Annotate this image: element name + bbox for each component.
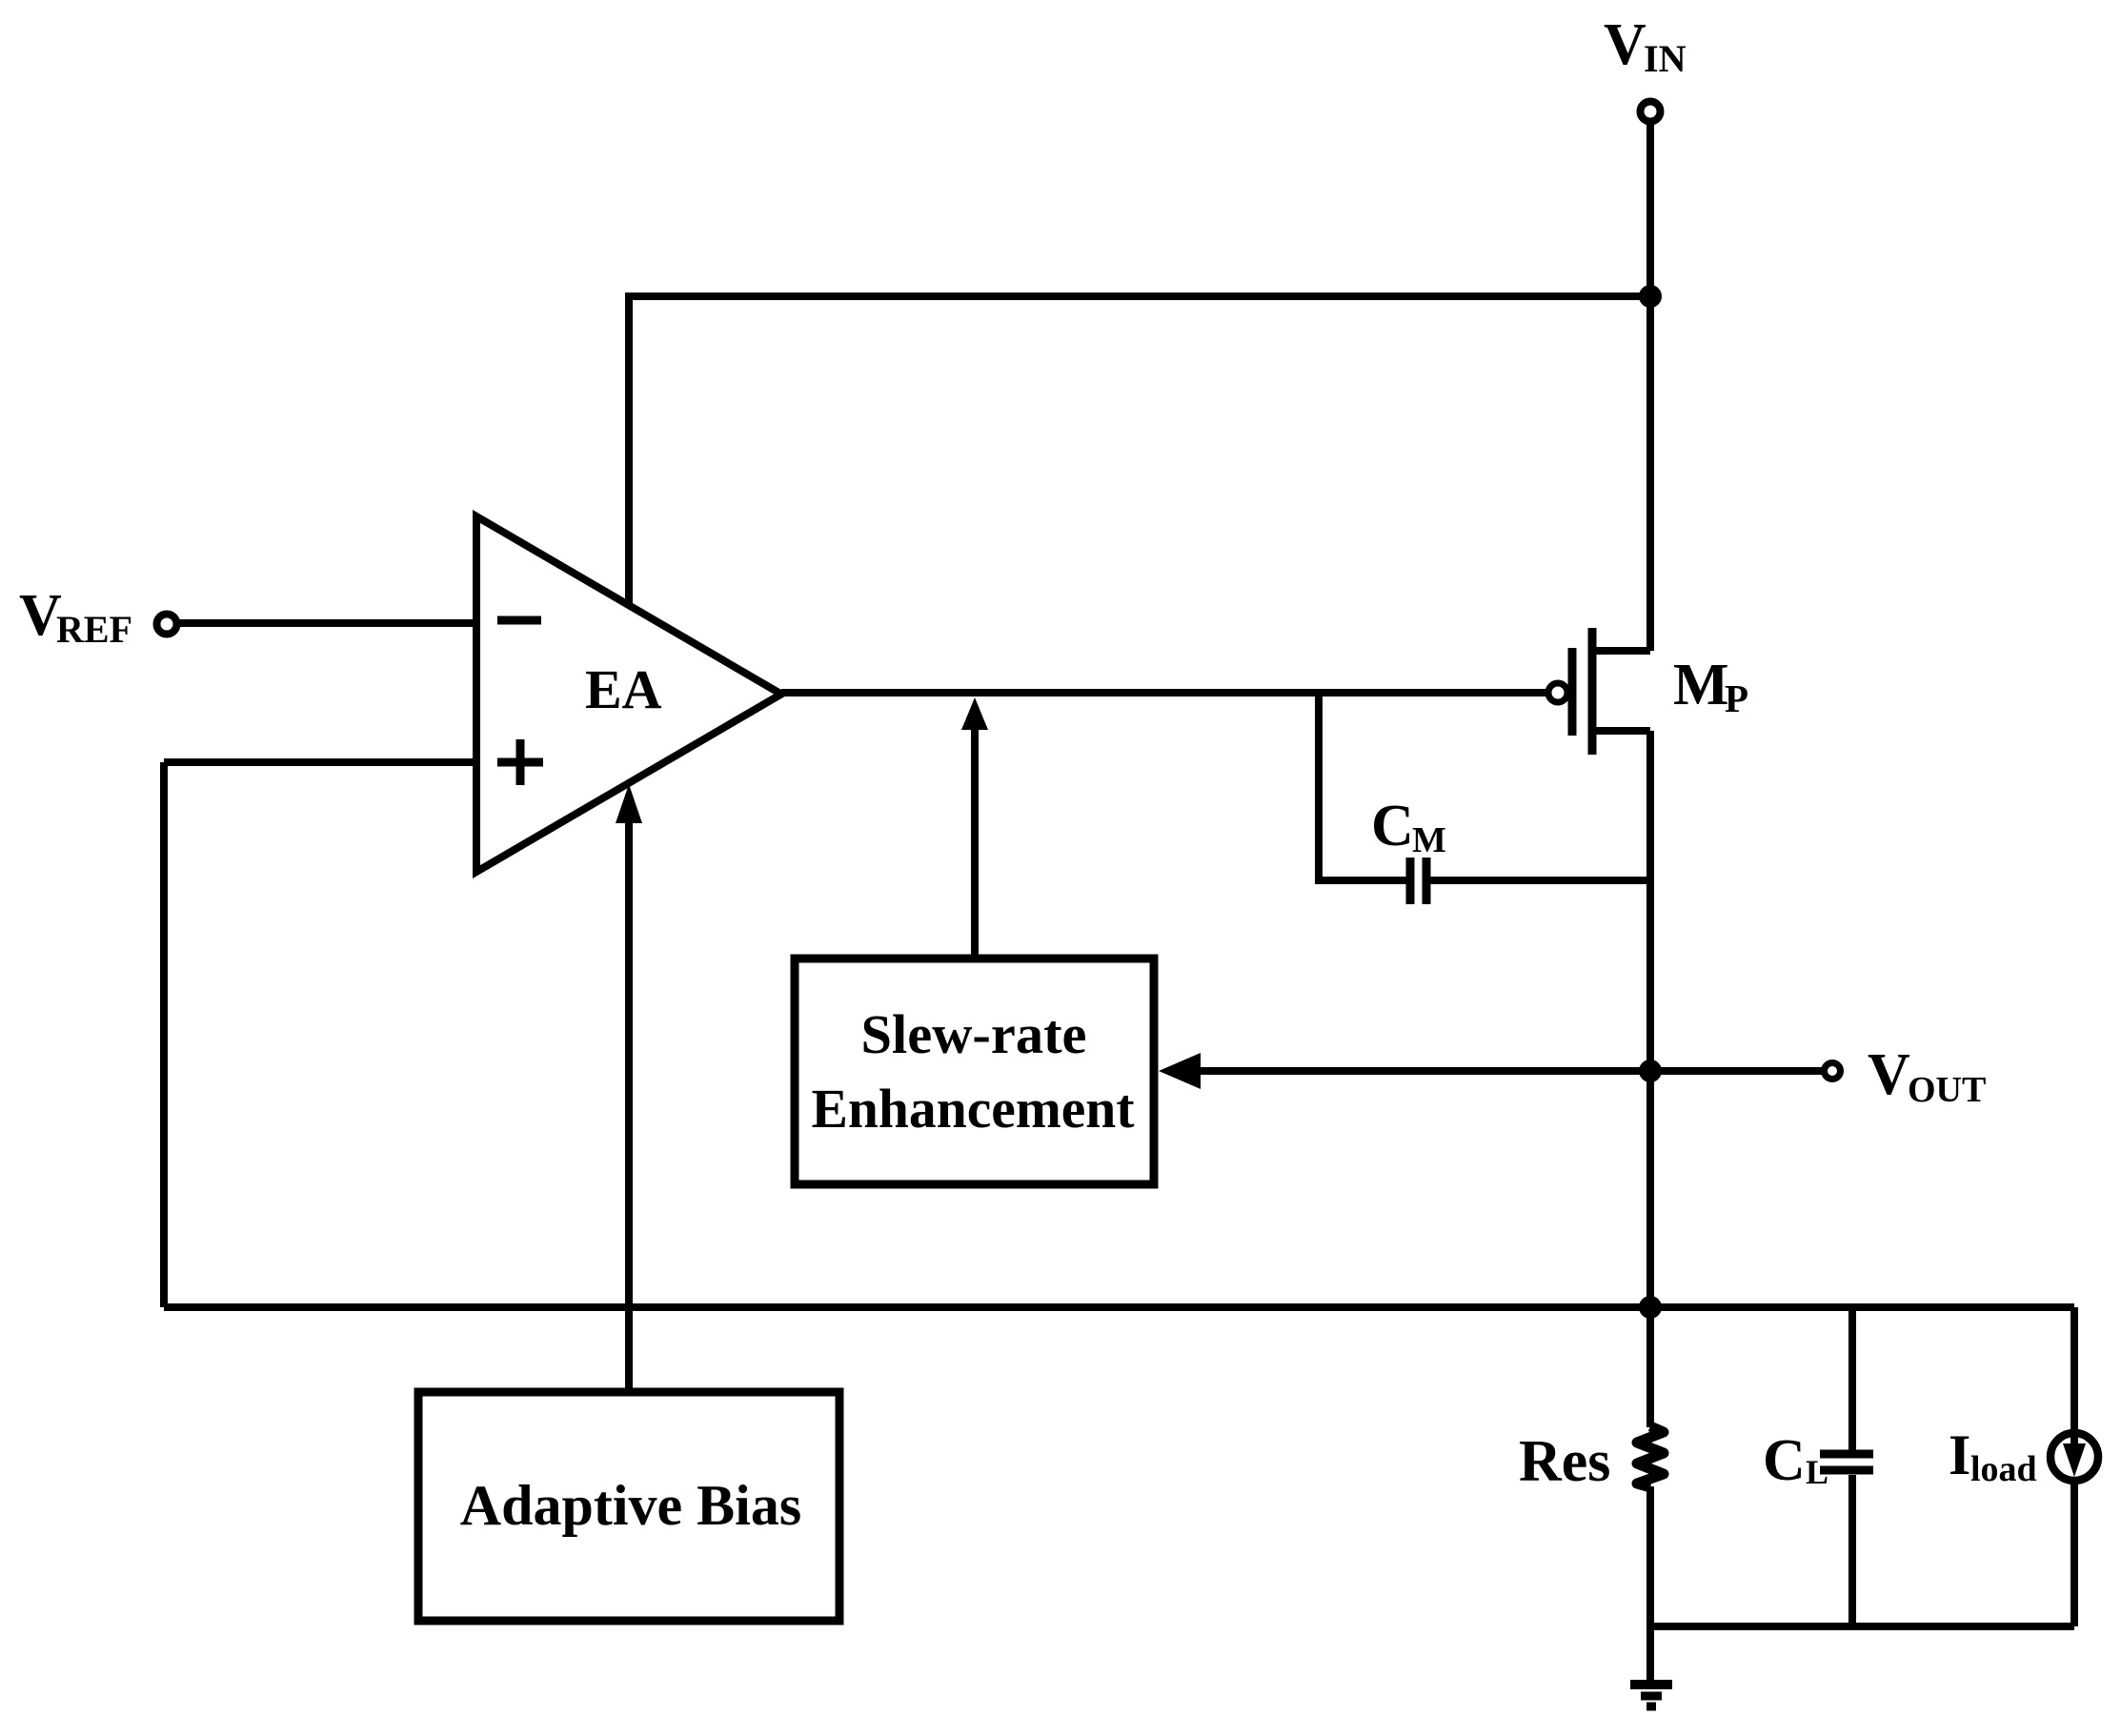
capacitor CM [1410,858,1426,904]
svg-text:OUT: OUT [1908,1070,1986,1110]
wire EA output to gate [781,689,1546,696]
terminal VREF [157,615,177,635]
wire plus input [164,758,476,766]
ground [1630,1685,1672,1706]
wire slew-rate arrow vertical [971,728,979,959]
svg-text:V: V [1604,12,1646,77]
svg-text:C: C [1763,1428,1806,1493]
MP channel bar [1588,628,1597,755]
svg-text:REF: REF [56,608,132,651]
wire MP drain down [1646,731,1654,1307]
svg-text:load: load [1970,1449,2037,1489]
wire VOUT to slew-rate arrow [1195,1067,1650,1075]
svg-text:Res: Res [1519,1429,1610,1494]
EA minus input symbol [497,616,541,625]
svg-text:C: C [1371,794,1414,858]
adaptive bias box [418,1392,839,1621]
wire ground stem [1646,1626,1654,1681]
wire VIN vertical [1646,124,1654,651]
svg-text:EA: EA [585,658,662,720]
wire Iload lower leg [2070,1482,2078,1626]
wire top feedback bus [629,296,1650,603]
svg-text:IN: IN [1644,37,1687,80]
terminal VIN [1641,102,1661,122]
MP drain terminal [1592,727,1650,735]
current source Iload [2050,1433,2098,1481]
wire bottom feedback bus [164,1303,2074,1311]
wire CL upper leg [1848,1307,1856,1450]
node output bus junction [1639,1296,1662,1319]
node VIN junction [1639,285,1662,308]
svg-text:Enhancement: Enhancement [812,1078,1136,1140]
terminal VOUT [1825,1063,1841,1080]
svg-text:V: V [1868,1042,1910,1107]
capacitor CL [1820,1454,1873,1470]
wire CL lower leg [1848,1475,1856,1626]
wire VREF to minus input [179,619,476,627]
wire bottom bus [1650,1623,2074,1630]
node VOUT junction [1639,1060,1662,1082]
resistor Res [1637,1426,1664,1487]
EA plus input symbol [497,739,543,785]
wire Iload upper leg [2070,1307,2078,1433]
svg-text:M: M [1673,653,1729,717]
svg-text:Slew-rate: Slew-rate [861,1003,1087,1065]
MP gate bubble [1548,683,1567,702]
svg-text:M: M [1412,820,1446,860]
wire CM left leg [1319,693,1406,880]
wire VOUT right [1650,1067,1823,1075]
svg-text:I: I [1949,1423,1970,1486]
wire Res branch lower [1646,1486,1654,1626]
svg-text:P: P [1725,676,1748,720]
wire adaptive bias arrow vertical [625,821,633,1392]
slew-rate box [795,959,1154,1184]
MP source terminal [1592,647,1650,655]
svg-text:Adaptive Bias: Adaptive Bias [460,1474,801,1537]
arrowhead into slew-rate box (from VOUT) [1159,1053,1201,1089]
arrowhead adaptive bias to EA [616,784,642,823]
op-amp EA triangle [476,516,781,872]
transistor MP [1548,628,1650,755]
MP gate bar [1568,648,1577,736]
wire left feedback vertical [160,762,168,1307]
wire Res branch upper [1646,1307,1654,1427]
svg-text:L: L [1806,1453,1828,1491]
arrowhead slew-rate to EA output wire [961,697,988,730]
wire CM right leg [1430,877,1650,884]
